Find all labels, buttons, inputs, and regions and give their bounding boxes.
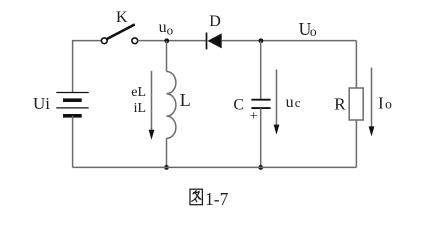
arrow iL (current/emf arrow beside inductor) bbox=[149, 71, 155, 140]
svg-text:Io: Io bbox=[378, 94, 392, 113]
wire: bottom rail bbox=[73, 166, 357, 168]
svg-text:iL: iL bbox=[134, 101, 146, 116]
node: capacitor bottom junction dot bbox=[258, 165, 263, 170]
svg-text:C: C bbox=[233, 96, 244, 113]
wire: battery bottom down to bottom rail bbox=[72, 116, 74, 168]
node at capacitor top junction dot bbox=[259, 38, 264, 43]
switch K bbox=[101, 24, 137, 43]
arrow I_o bbox=[369, 68, 375, 137]
node u_o junction dot bbox=[164, 38, 169, 43]
svg-text:Ui: Ui bbox=[33, 94, 50, 113]
svg-text:eL: eL bbox=[131, 85, 146, 100]
wire: diode to top-right corner bbox=[222, 40, 357, 42]
inductor L bbox=[167, 41, 176, 168]
diode D bbox=[207, 33, 222, 50]
battery Ui bbox=[56, 93, 88, 116]
wire: switch to diode bbox=[138, 40, 206, 42]
svg-text:+: + bbox=[250, 109, 258, 124]
svg-text:R: R bbox=[334, 94, 346, 113]
svg-text:uo: uo bbox=[159, 19, 174, 38]
svg-text:D: D bbox=[209, 13, 221, 30]
node: inductor bottom junction dot bbox=[164, 165, 169, 170]
svg-text:1-7: 1-7 bbox=[205, 189, 229, 209]
svg-text:uc: uc bbox=[286, 94, 301, 111]
capacitor C bbox=[251, 41, 270, 168]
arrow u_c bbox=[274, 70, 280, 135]
caption 图1-7 (drawn glyph for 图) bbox=[190, 189, 202, 205]
svg-text:L: L bbox=[180, 90, 191, 110]
resistor R bbox=[349, 41, 363, 168]
wire: top-left from battery up and right to switch bbox=[73, 41, 102, 93]
svg-text:K: K bbox=[116, 9, 128, 26]
